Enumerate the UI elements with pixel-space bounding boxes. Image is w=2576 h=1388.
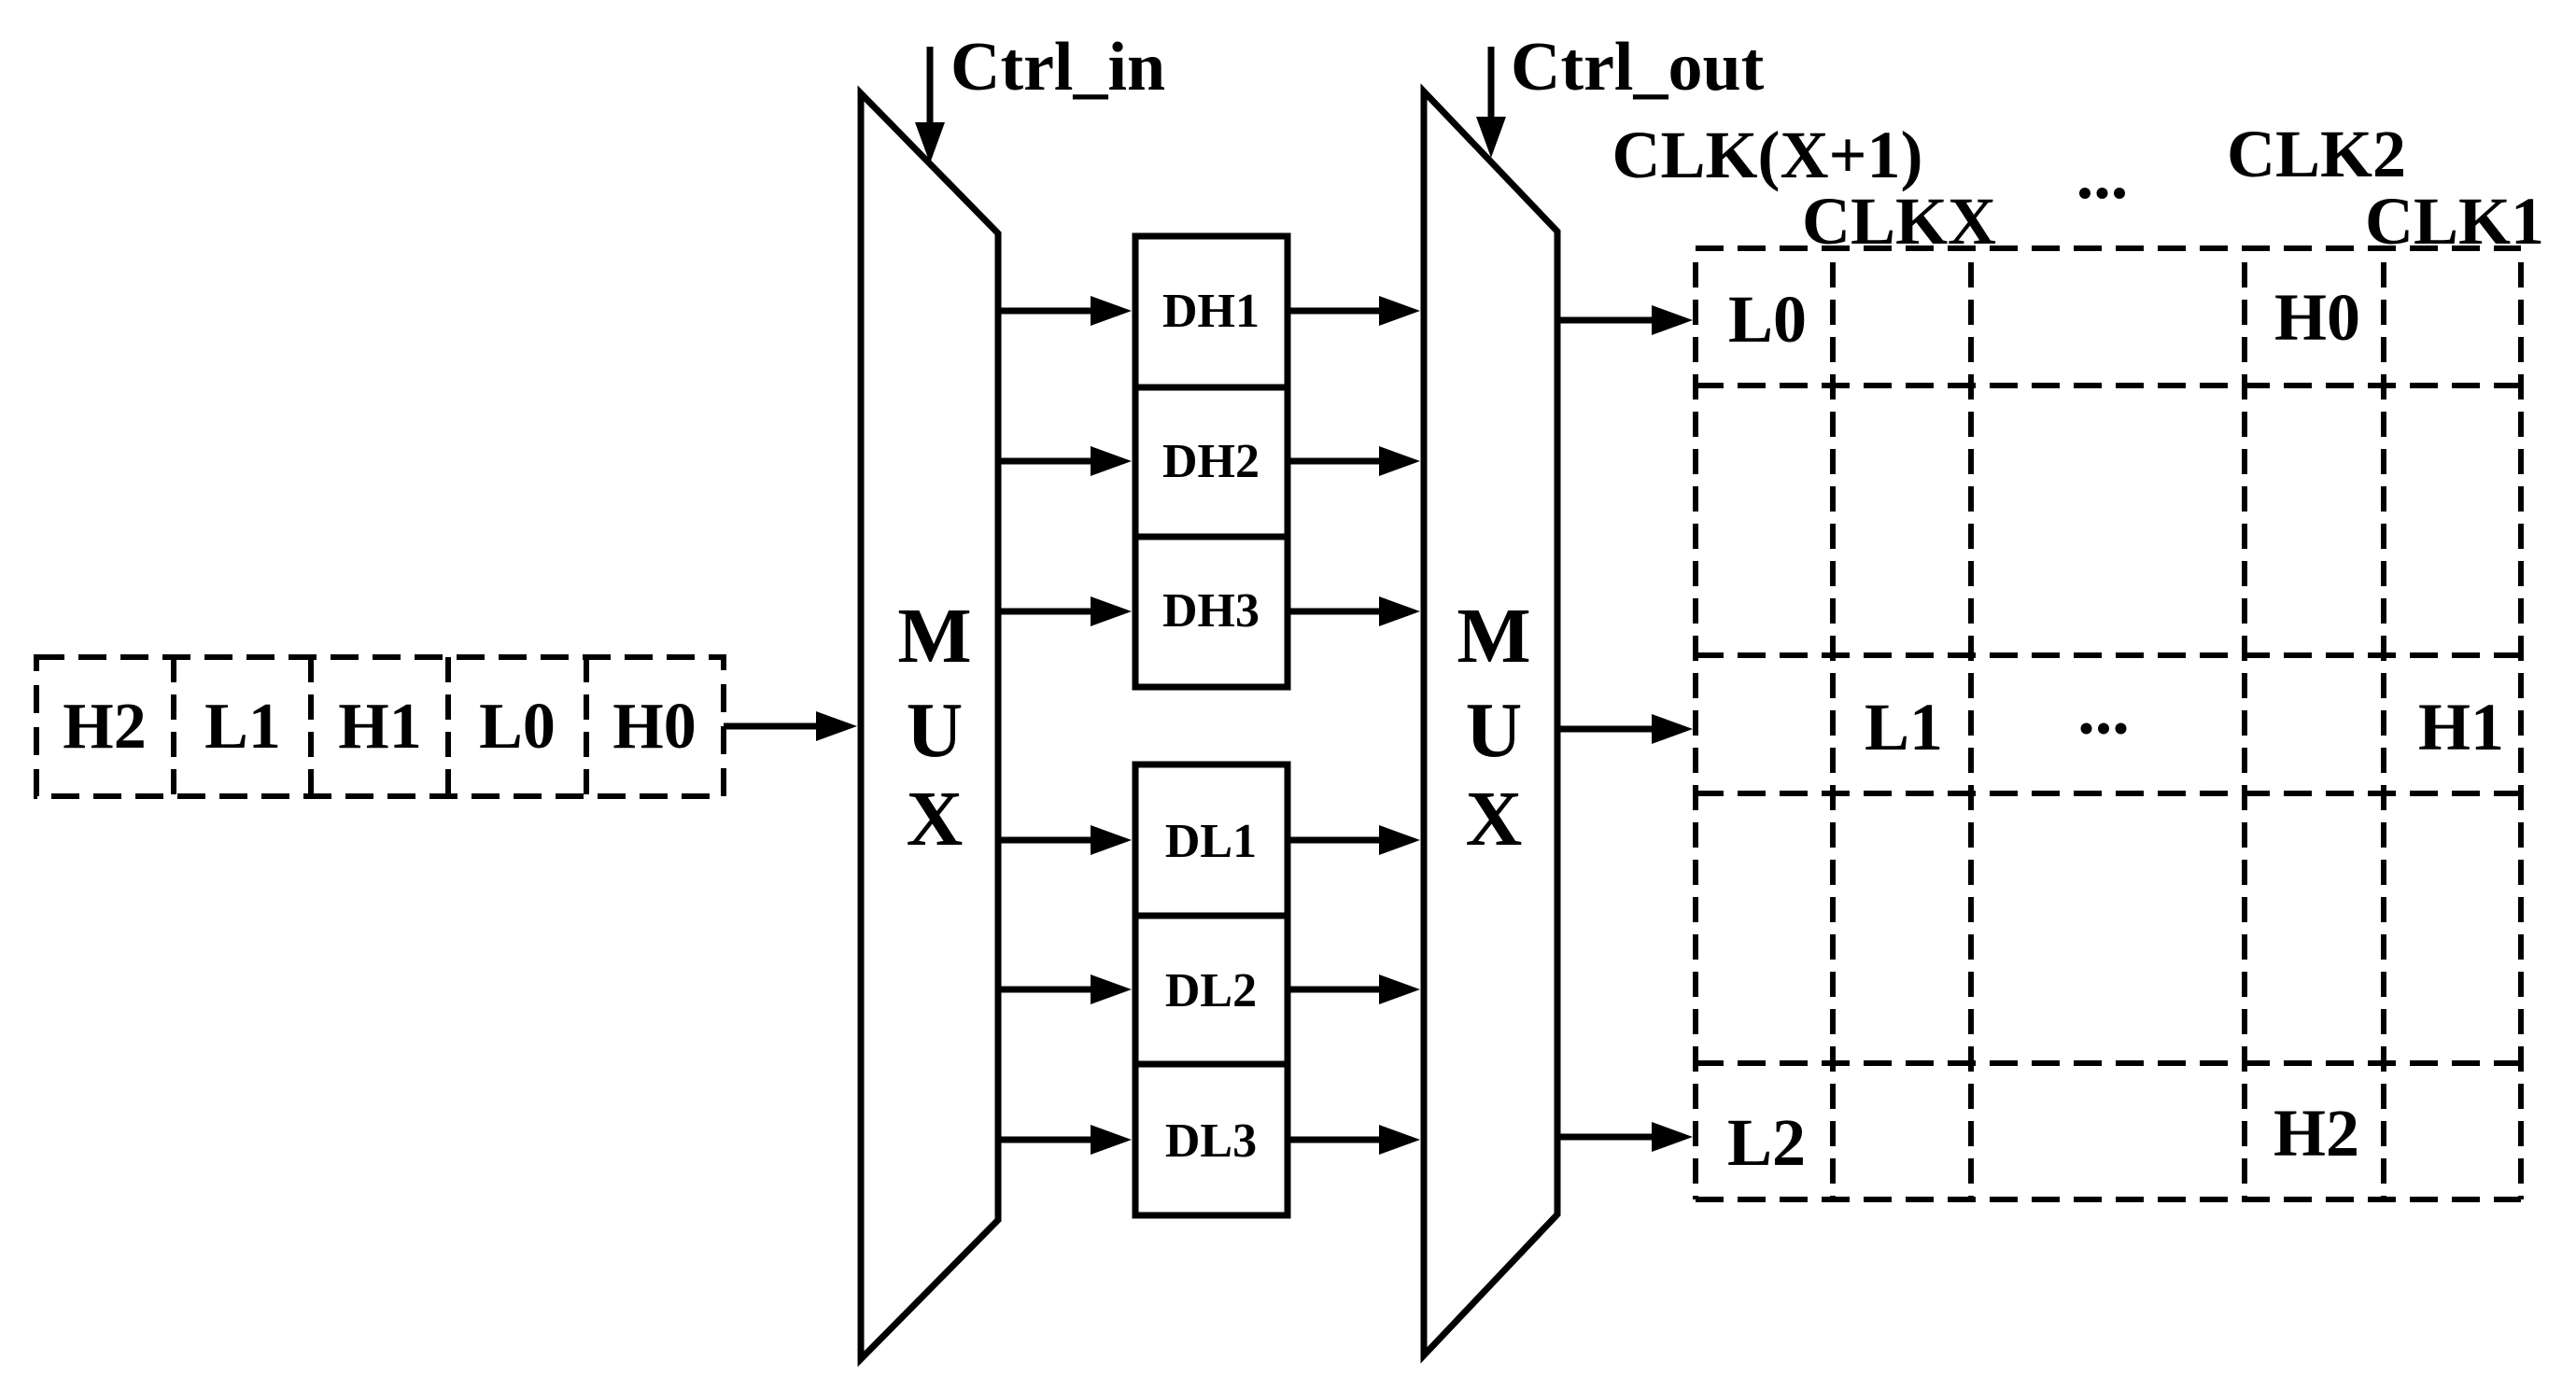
svg-text:L1: L1: [1865, 690, 1943, 764]
svg-text:L0: L0: [479, 691, 556, 763]
svg-text:DH1: DH1: [1162, 285, 1260, 338]
svg-text:H0: H0: [612, 691, 696, 763]
svg-text:X: X: [1466, 776, 1523, 862]
svg-text:CLK(X+1): CLK(X+1): [1612, 118, 1923, 192]
svg-text:H2: H2: [2273, 1096, 2359, 1171]
svg-text:U: U: [1466, 687, 1523, 774]
svg-text:Ctrl_out: Ctrl_out: [1511, 29, 1765, 105]
svg-text:CLK1: CLK1: [2365, 184, 2544, 259]
svg-text:CLK2: CLK2: [2227, 117, 2406, 191]
svg-text:M: M: [1457, 593, 1530, 680]
svg-text:H1: H1: [2418, 690, 2504, 764]
svg-text:X: X: [907, 776, 964, 862]
svg-text:CLKX: CLKX: [1802, 184, 1996, 259]
svg-text:DL1: DL1: [1165, 815, 1257, 868]
svg-text:M: M: [897, 593, 971, 680]
svg-text:H2: H2: [63, 691, 146, 763]
svg-text:L0: L0: [1728, 282, 1807, 357]
svg-text:H0: H0: [2274, 280, 2360, 355]
svg-text:DH3: DH3: [1162, 584, 1260, 638]
svg-text:DL3: DL3: [1165, 1115, 1257, 1168]
svg-text:DH2: DH2: [1162, 435, 1260, 488]
svg-text:DL2: DL2: [1165, 964, 1257, 1017]
svg-text:L1: L1: [204, 691, 281, 763]
svg-text:Ctrl_in: Ctrl_in: [950, 29, 1165, 105]
svg-text:L2: L2: [1727, 1105, 1806, 1180]
svg-text:H1: H1: [338, 691, 421, 763]
svg-text:U: U: [907, 687, 964, 774]
